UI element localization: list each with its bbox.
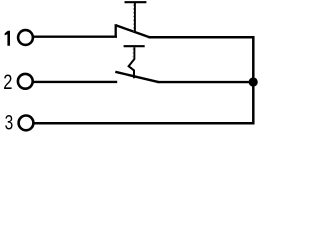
svg-text:3: 3 xyxy=(5,110,14,134)
svg-text:2: 2 xyxy=(3,70,12,94)
